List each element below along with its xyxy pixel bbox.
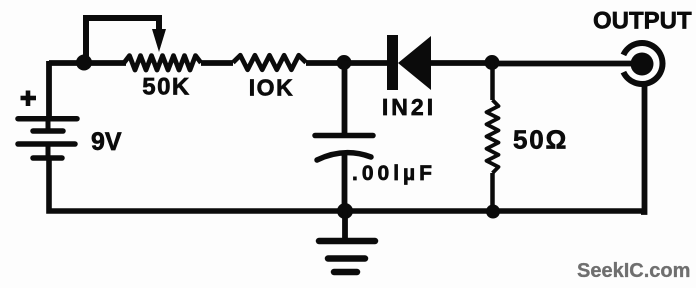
- value label 50 ohm: [513, 125, 568, 155]
- wire: top rail from node A to 50K: [49, 60, 126, 66]
- svg-text:50K: 50K: [142, 74, 191, 101]
- battery B1 plate 1 (long, positive): [18, 116, 77, 122]
- potentiometer wiper arrowhead: [152, 29, 166, 52]
- output connector J1 outer ring: [623, 43, 662, 84]
- svg-text:IOK: IOK: [249, 75, 294, 101]
- wire: capacitor down to ground node D: [342, 152, 348, 212]
- wire: bottom rail: [49, 157, 645, 211]
- node B (junction of 10K, diode, capacitor): [337, 55, 352, 70]
- ground bar 1: [319, 238, 375, 245]
- wire: battery positive lead (down from rail): [46, 61, 52, 119]
- ground bar 2: [328, 255, 365, 262]
- watermark SeekIC.com: [577, 260, 690, 282]
- wire: diode anode to node C: [431, 60, 492, 66]
- wire: output connector down to bottom rail: [641, 84, 645, 212]
- wire: ground stub: [342, 211, 348, 241]
- capacitor C1 top plate: [315, 133, 373, 139]
- resistor R1 50K (zigzag): [124, 56, 201, 70]
- ground bar 3: [334, 269, 357, 276]
- wire: node C to output connector: [492, 61, 633, 67]
- svg-text:.00lµF: .00lµF: [352, 162, 436, 185]
- wire: 50 ohm to bottom rail: [490, 173, 495, 212]
- battery B1 plate 2 (short): [33, 128, 63, 134]
- node A (junction dot at battery tap): [76, 55, 92, 71]
- battery B1 plate 4 (short, negative): [33, 155, 62, 161]
- node D (junction on bottom rail at ground): [337, 203, 353, 219]
- wire: node B to diode cathode: [344, 60, 388, 66]
- battery B1 plate 3 (long): [18, 141, 75, 147]
- wire: between 50K and 10K: [201, 60, 233, 66]
- svg-text:50Ω: 50Ω: [513, 125, 568, 155]
- label OUTPUT: [593, 8, 692, 35]
- resistor R2 10K (zigzag): [233, 55, 306, 69]
- node C (junction of diode, 50 ohm load): [485, 55, 500, 70]
- diode D1 1N21 anode triangle: [398, 36, 431, 90]
- svg-text:SeekIC.com: SeekIC.com: [577, 260, 690, 282]
- diode D1 1N21 cathode bar: [387, 35, 398, 90]
- battery B1 stem between plate3 and plate4: [46, 144, 51, 158]
- svg-text:9V: 9V: [91, 128, 122, 156]
- resistor R3 50 ohm (vertical zigzag): [487, 100, 499, 173]
- value label 10K: [249, 75, 294, 101]
- value label 50K: [142, 74, 191, 101]
- value label 9V: [91, 128, 122, 156]
- wire: potentiometer wiper loop: [86, 18, 159, 61]
- svg-text:IN2I: IN2I: [382, 94, 436, 120]
- capacitor C1 bottom plate (curved): [317, 153, 371, 160]
- wire: 10K to node B: [306, 60, 344, 66]
- battery B1 stem between plate1 and plate2: [46, 118, 51, 130]
- value label 1N21: [382, 94, 436, 120]
- svg-text:OUTPUT: OUTPUT: [593, 8, 692, 35]
- output connector J1 center pin: [631, 53, 654, 76]
- battery polarity + sign: [21, 91, 37, 107]
- value label .001uF: [352, 162, 436, 185]
- wire: node C down to 50 ohm resistor: [490, 62, 495, 100]
- wire: node B down to capacitor: [342, 63, 348, 136]
- node E (junction of 50 ohm on bottom rail): [486, 205, 500, 219]
